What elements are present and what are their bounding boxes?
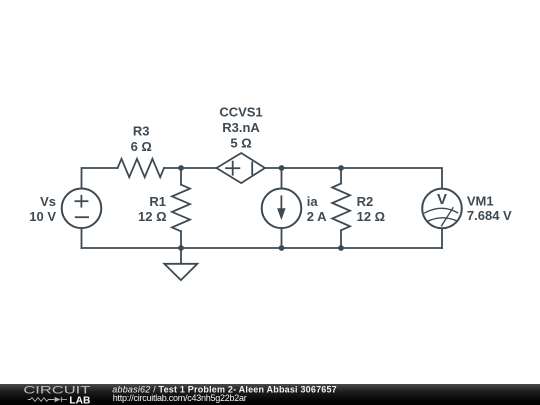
svg-text:R1: R1 (149, 194, 166, 209)
svg-text:Vs: Vs (40, 194, 56, 209)
svg-text:R2: R2 (357, 194, 374, 209)
svg-text:10 V: 10 V (29, 209, 56, 224)
svg-text:6 Ω: 6 Ω (131, 139, 152, 154)
svg-text:7.684 V: 7.684 V (467, 208, 512, 223)
svg-text:LAB: LAB (69, 395, 90, 405)
svg-text:V: V (437, 191, 447, 208)
svg-text:12 Ω: 12 Ω (138, 209, 167, 224)
svg-text:12 Ω: 12 Ω (357, 209, 386, 224)
svg-text:CCVS1: CCVS1 (219, 104, 262, 119)
svg-text:R3: R3 (133, 124, 150, 139)
svg-text:2 A: 2 A (307, 209, 327, 224)
svg-text:http://circuitlab.com/c43nh5g2: http://circuitlab.com/c43nh5g22b2ar (113, 393, 247, 403)
svg-text:R3.nA: R3.nA (222, 120, 260, 135)
svg-text:ia: ia (307, 194, 319, 209)
svg-text:VM1: VM1 (467, 194, 494, 209)
svg-text:5 Ω: 5 Ω (230, 135, 251, 150)
